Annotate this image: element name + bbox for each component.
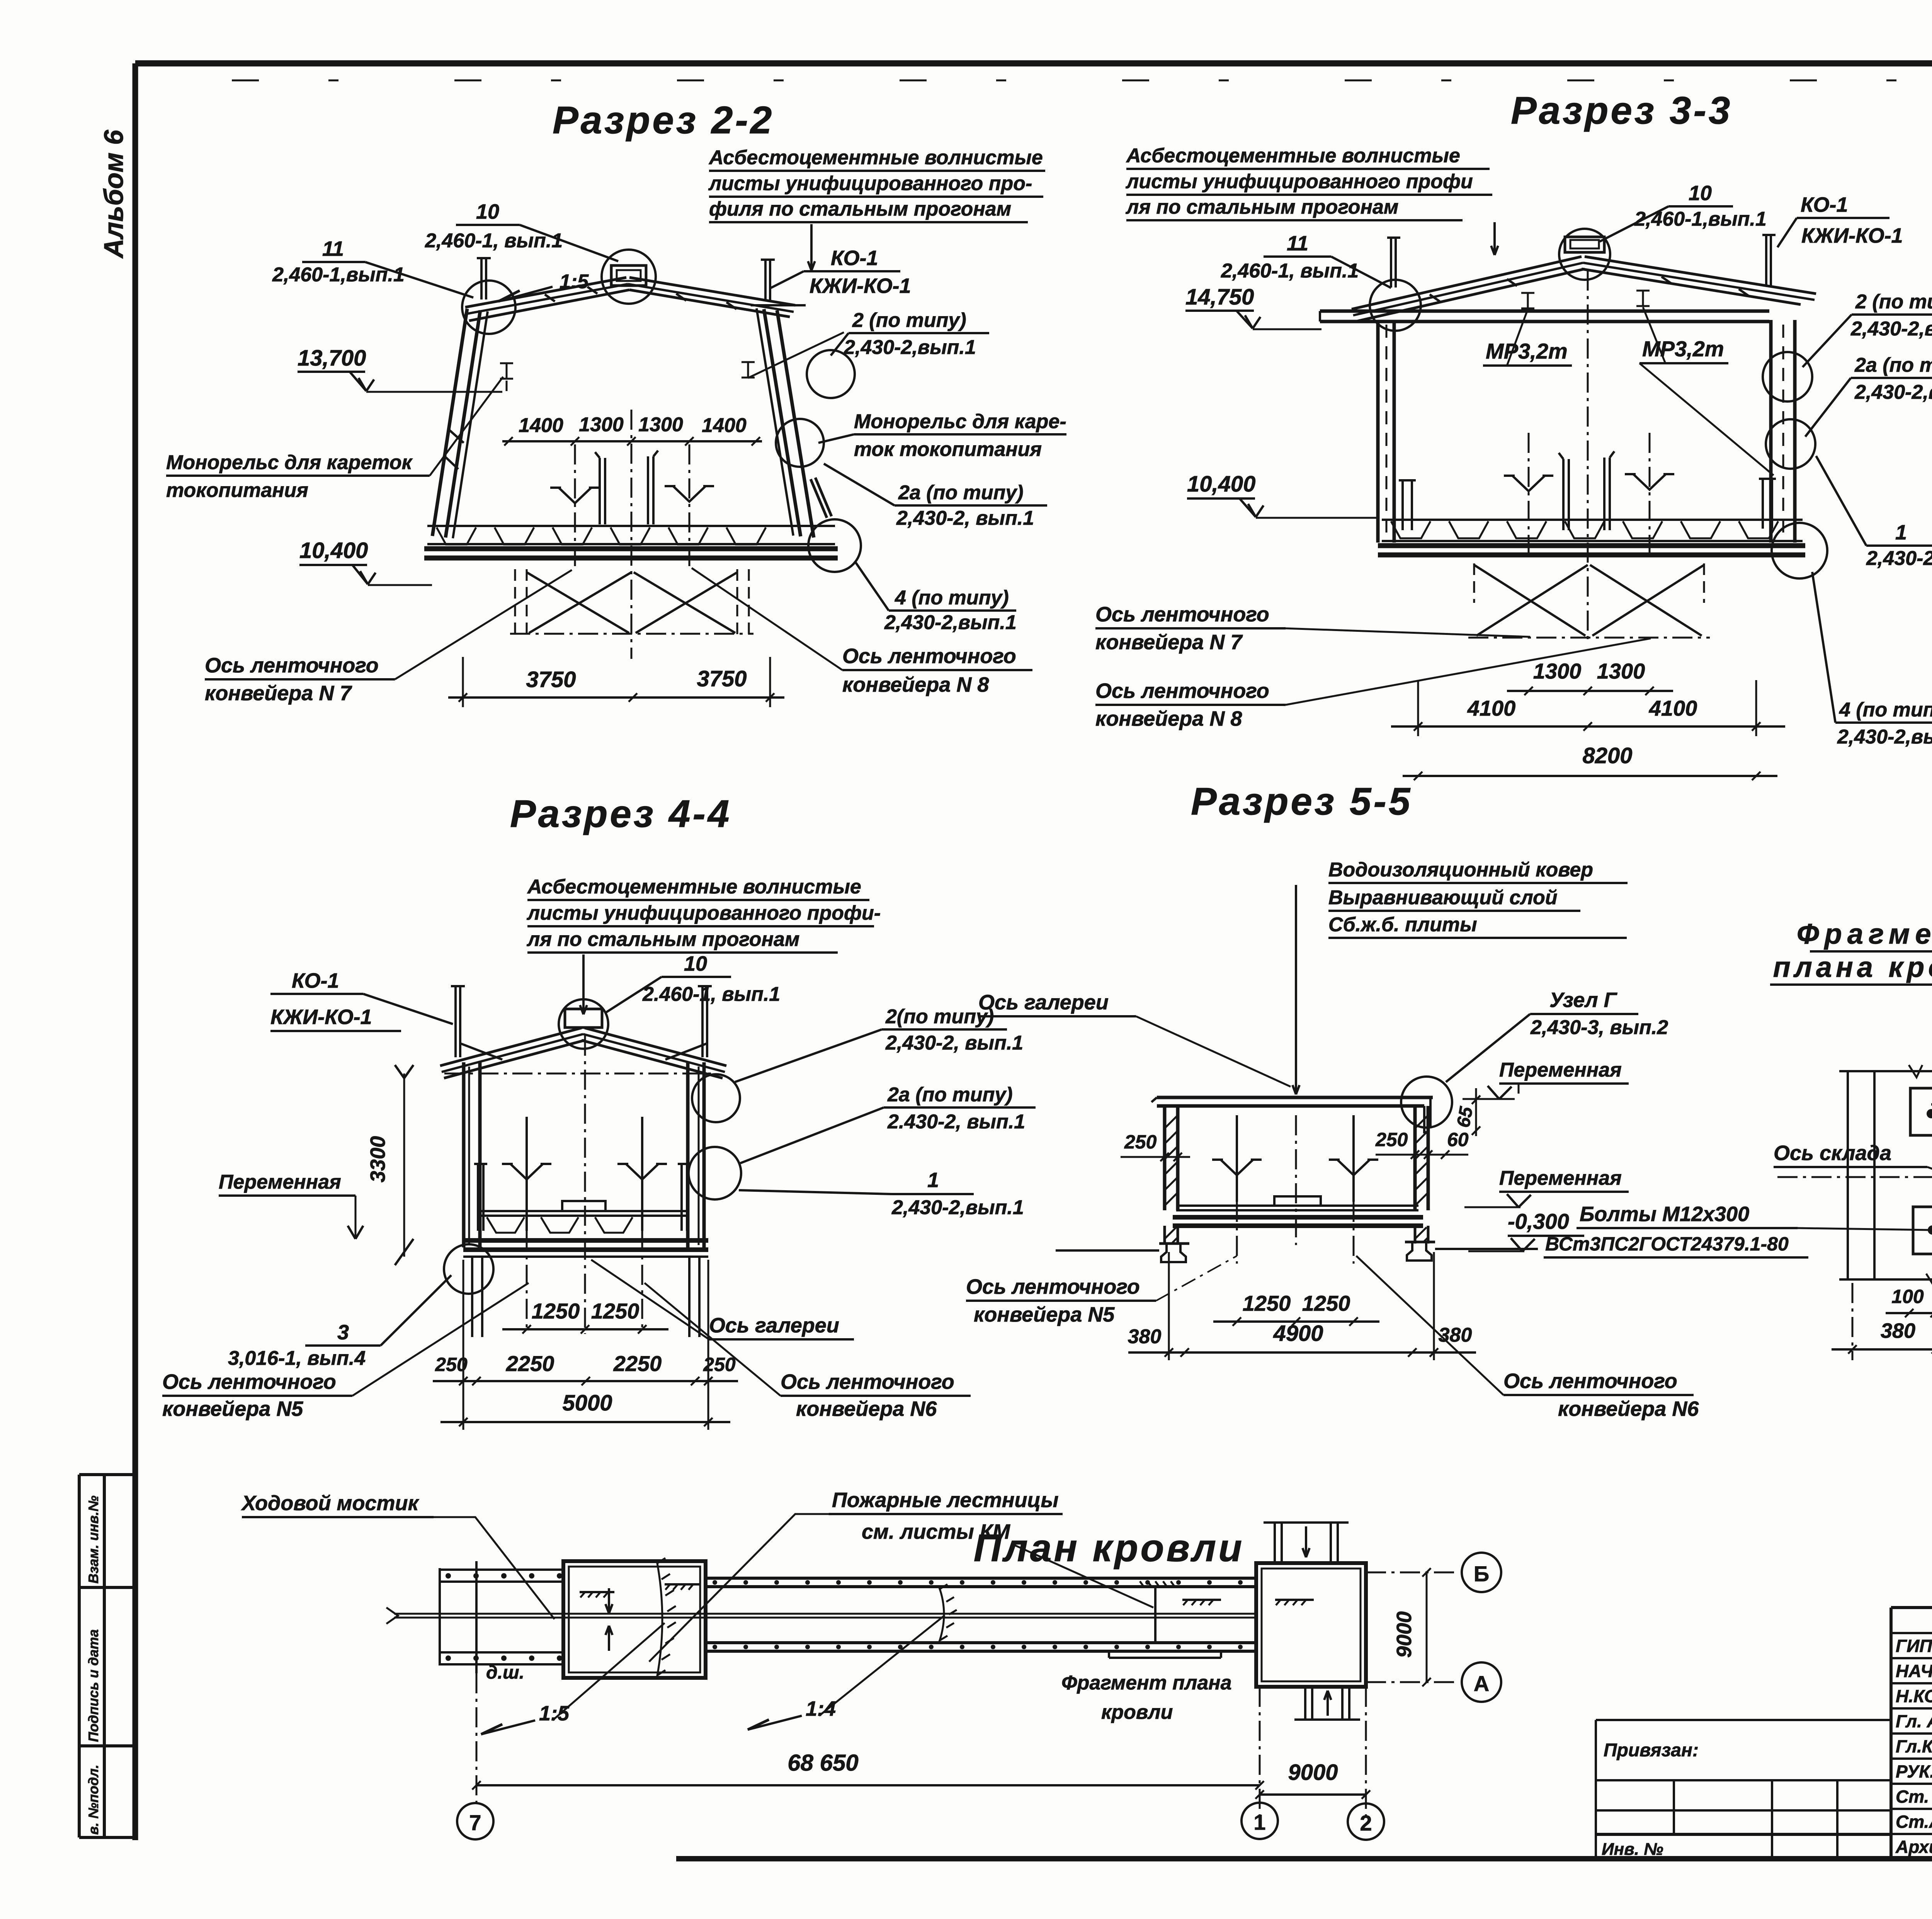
svg-text:филя по стальным прогонам: филя по стальным прогонам <box>709 198 1011 220</box>
svg-text:Сб.ж.б. плиты: Сб.ж.б. плиты <box>1328 914 1477 936</box>
svg-text:2,460-1,вып.1: 2,460-1,вып.1 <box>272 264 405 286</box>
axis circle 2 <box>1348 1803 1384 1840</box>
svg-text:5000: 5000 <box>562 1390 612 1415</box>
svg-text:1400: 1400 <box>702 414 747 437</box>
svg-text:3: 3 <box>337 1321 349 1344</box>
svg-text:10: 10 <box>684 952 707 975</box>
svg-text:КО-1: КО-1 <box>292 969 339 992</box>
svg-text:2.430-2, вып.1: 2.430-2, вып.1 <box>887 1111 1025 1133</box>
svg-text:1300: 1300 <box>579 413 624 436</box>
svg-text:3750: 3750 <box>697 666 747 691</box>
svg-text:10,400: 10,400 <box>1187 471 1255 497</box>
svg-text:Взам. инв.№: Взам. инв.№ <box>85 1495 101 1584</box>
section 3-3 right wall <box>1769 320 1773 543</box>
axis circle Б <box>1462 1553 1501 1592</box>
titleblock staff table <box>1889 1608 1893 1859</box>
svg-text:2,430-2,вып.1: 2,430-2,вып.1 <box>1837 726 1932 748</box>
svg-text:2,430-2,вып.1: 2,430-2,вып.1 <box>1854 381 1932 403</box>
plan centre line with walk bridge <box>394 1613 1256 1615</box>
svg-text:9000: 9000 <box>1393 1611 1416 1658</box>
svg-text:380: 380 <box>1128 1325 1162 1348</box>
section 5-5 right wall hatched <box>1413 1106 1417 1210</box>
axis circle А <box>1462 1662 1501 1702</box>
svg-text:-0,300: -0,300 <box>1508 1209 1569 1233</box>
svg-text:Ось склада: Ось склада <box>1774 1142 1891 1165</box>
svg-text:конвейера N6: конвейера N6 <box>796 1397 937 1421</box>
svg-text:Монорельс для кареток: Монорельс для кареток <box>166 451 413 474</box>
svg-text:МР3,2т: МР3,2т <box>1642 337 1724 361</box>
left roof post 2-2 <box>480 258 483 299</box>
plan expansion curve mid corridor <box>939 1587 944 1643</box>
svg-text:Подпись и дата: Подпись и дата <box>85 1629 101 1742</box>
eave circles 3-3 <box>1370 280 1421 331</box>
sheet border frame <box>135 60 1932 66</box>
svg-text:250: 250 <box>1124 1131 1157 1153</box>
monorail I-beams under beam 3-3 <box>1521 292 1534 294</box>
svg-text:2(по типу): 2(по типу) <box>885 1005 994 1028</box>
svg-text:Ходовой мостик: Ходовой мостик <box>241 1492 420 1515</box>
svg-text:1400: 1400 <box>519 414 563 437</box>
svg-text:ВСт3ПС2ГОСТ24379.1-80: ВСт3ПС2ГОСТ24379.1-80 <box>1545 1233 1789 1255</box>
tracks below right square <box>1304 1687 1306 1720</box>
svg-text:листы унифицированного профи: листы унифицированного профи <box>1125 170 1473 193</box>
left eave joint circle 2-2 <box>462 281 515 334</box>
axis to circle Б <box>1366 1572 1459 1574</box>
svg-text:1250: 1250 <box>1243 1291 1291 1315</box>
svg-text:3,016-1, вып.4: 3,016-1, вып.4 <box>228 1347 366 1369</box>
svg-text:10,400: 10,400 <box>299 538 368 563</box>
ladder bracket square top <box>1910 1088 1932 1135</box>
eave dash-dot line 4-4 <box>444 1073 715 1075</box>
svg-text:3750: 3750 <box>526 667 576 692</box>
svg-text:2,430-2, вып.1: 2,430-2, вып.1 <box>885 1032 1023 1054</box>
svg-text:2250: 2250 <box>613 1351 662 1376</box>
svg-text:в. №подл.: в. №подл. <box>85 1764 101 1835</box>
svg-text:Асбестоцементные волнистые: Асбестоцементные волнистые <box>1126 145 1460 167</box>
svg-text:КО-1: КО-1 <box>1801 193 1848 216</box>
svg-text:токопитания: токопитания <box>166 479 308 502</box>
svg-text:Асбестоцементные волнистые: Асбестоцементные волнистые <box>527 876 861 898</box>
svg-text:1250: 1250 <box>532 1299 580 1323</box>
svg-text:План кровли: План кровли <box>974 1526 1244 1570</box>
svg-text:Фрагмент: Фрагмент <box>1797 918 1932 950</box>
svg-text:2 (по типу): 2 (по типу) <box>1855 291 1932 313</box>
right drip edge 5-5 <box>1424 1106 1430 1132</box>
leader from note to roof apex 2-2 <box>810 224 813 270</box>
ground lines 5-5 <box>1056 1249 1159 1252</box>
roof slopes 3-3 <box>1352 257 1582 309</box>
svg-text:НАЧ.ОТС.: НАЧ.ОТС. <box>1896 1661 1932 1681</box>
floor pad 5-5 <box>1274 1196 1321 1206</box>
section 4-4 right wall <box>686 1062 690 1247</box>
svg-text:2 (по типу): 2 (по типу) <box>852 309 966 332</box>
svg-text:65: 65 <box>1453 1105 1477 1129</box>
svg-text:7: 7 <box>469 1810 481 1835</box>
svg-text:380: 380 <box>1881 1319 1915 1342</box>
section 5-5 roof slab <box>1157 1096 1433 1099</box>
svg-text:2,460-1, вып.1: 2,460-1, вып.1 <box>1221 260 1359 282</box>
corner callout circle 5-5 <box>1401 1077 1452 1128</box>
inner posts 4-4 <box>477 1164 479 1231</box>
svg-text:Ось ленточного: Ось ленточного <box>1095 679 1269 703</box>
plan right square <box>1256 1563 1366 1687</box>
right roof post 2-2 <box>764 260 767 301</box>
support columns below 4-4 <box>471 1257 473 1337</box>
svg-text:11: 11 <box>322 237 344 260</box>
angled braces at eaves 4-4 <box>460 1043 502 1060</box>
svg-text:конвейера N 8: конвейера N 8 <box>842 673 989 696</box>
svg-text:Ось ленточного: Ось ленточного <box>842 645 1016 668</box>
svg-text:Болты М12х300: Болты М12х300 <box>1580 1203 1749 1226</box>
callout circles right wall 4-4 <box>692 1074 740 1122</box>
callout circles right wall 3-3 <box>1763 352 1812 401</box>
hopper funnels and pipes 2-2 <box>559 488 591 503</box>
wall stubs below 5-5 <box>1163 1226 1166 1244</box>
monorail I-beam right 2-2 <box>742 361 755 363</box>
posts above roof 3-3 <box>1390 238 1392 288</box>
section 2-2 left wall <box>432 309 467 536</box>
svg-text:1300: 1300 <box>638 413 683 436</box>
roof posts 4-4 <box>454 986 457 1057</box>
wall bracket marks left 2-2 <box>449 430 464 443</box>
svg-text:Фрагмент плана: Фрагмент плана <box>1061 1672 1232 1694</box>
svg-text:Гл.КОНСТ.: Гл.КОНСТ. <box>1896 1736 1932 1756</box>
svg-text:4900: 4900 <box>1273 1321 1323 1346</box>
svg-text:1: 1 <box>927 1169 939 1192</box>
axis circle 1 <box>1242 1803 1278 1839</box>
svg-text:КО-1: КО-1 <box>831 247 878 270</box>
svg-text:4 (по типу): 4 (по типу) <box>895 587 1009 609</box>
svg-text:МР3,2т: МР3,2т <box>1486 339 1568 363</box>
svg-text:Ось ленточного: Ось ленточного <box>1503 1369 1677 1393</box>
curved expansion joint in square <box>657 1561 662 1678</box>
break marks fragment <box>1909 1065 1922 1077</box>
svg-text:Выравнивающий слой: Выравнивающий слой <box>1328 886 1558 909</box>
svg-text:Узел Г: Узел Г <box>1549 988 1618 1012</box>
section 5-5 left wall hatched <box>1163 1106 1167 1210</box>
monorail I-beam left 2-2 <box>500 362 513 364</box>
inner wall posts 3-3 <box>1401 480 1404 530</box>
axis to circle А <box>1366 1681 1459 1683</box>
callout circles right wall 2-2 <box>807 350 855 398</box>
svg-text:Разрез 4-4: Разрез 4-4 <box>510 792 731 835</box>
svg-text:10: 10 <box>476 200 499 223</box>
tracks above right square <box>1274 1523 1276 1563</box>
svg-text:ля по стальным прогонам: ля по стальным прогонам <box>1125 196 1398 218</box>
svg-text:4100: 4100 <box>1467 696 1516 720</box>
svg-text:конвейера N 8: конвейера N 8 <box>1095 707 1242 730</box>
svg-text:2,430-2,вып.1: 2,430-2,вып.1 <box>884 611 1017 634</box>
floor and deck 4-4 <box>478 1210 687 1212</box>
leader from note down to roof (3-3) <box>1493 222 1496 255</box>
svg-text:Ось ленточного: Ось ленточного <box>781 1370 954 1393</box>
floor small pad 4-4 <box>562 1201 605 1211</box>
arrows inside left square <box>608 1588 610 1613</box>
svg-text:конвейера N6: конвейера N6 <box>1558 1397 1699 1421</box>
svg-text:Разрез 5-5: Разрез 5-5 <box>1191 780 1412 823</box>
fragment wall lines <box>1847 1070 1849 1280</box>
svg-text:Ст.АРХ.: Ст.АРХ. <box>1896 1812 1932 1832</box>
svg-text:Альбом 6: Альбом 6 <box>99 129 129 259</box>
svg-text:РУК. ГР.: РУК. ГР. <box>1896 1761 1932 1781</box>
roof apex detail 3-3 <box>1565 237 1604 252</box>
svg-text:Н.КОНТР.: Н.КОНТР. <box>1896 1686 1932 1706</box>
svg-text:Гл. АРХ.: Гл. АРХ. <box>1896 1711 1932 1731</box>
leader arrow from notes to roof 5-5 <box>1295 885 1297 1070</box>
svg-text:А: А <box>1474 1671 1489 1696</box>
centre axis 2-2 <box>631 410 633 659</box>
svg-text:Переменная: Переменная <box>219 1171 341 1193</box>
svg-text:ГИП: ГИП <box>1896 1636 1932 1656</box>
svg-text:Ось ленточного: Ось ленточного <box>205 654 379 677</box>
scan artifact dashed streak top <box>232 80 1932 82</box>
svg-text:3300: 3300 <box>366 1136 389 1182</box>
svg-text:Привязан:: Привязан: <box>1604 1740 1699 1761</box>
svg-text:2,430-2,вып.1: 2,430-2,вып.1 <box>844 336 976 359</box>
svg-text:Ось галереи: Ось галереи <box>978 991 1109 1014</box>
floor 5-5 <box>1176 1204 1418 1207</box>
ladder bracket square bottom <box>1913 1207 1932 1254</box>
svg-text:60: 60 <box>1447 1129 1469 1150</box>
svg-text:конвейера N5: конвейера N5 <box>162 1397 303 1421</box>
svg-text:Б: Б <box>1474 1562 1489 1586</box>
svg-text:2,460-1,вып.1: 2,460-1,вып.1 <box>1634 208 1767 230</box>
section 2-2 floor slab ribbed deck <box>427 525 835 527</box>
purlin marks on roof 2-2 <box>545 294 555 301</box>
right eave outrigger 2-2 <box>751 304 806 306</box>
svg-text:9000: 9000 <box>1288 1760 1338 1785</box>
svg-text:1:4: 1:4 <box>806 1697 836 1720</box>
svg-text:Инв. №: Инв. № <box>1602 1840 1663 1859</box>
monorail stub right wall 2-2 <box>811 479 827 518</box>
centre axis 3-3 <box>1587 270 1589 640</box>
svg-text:2: 2 <box>1360 1811 1372 1835</box>
section 2-2 right wall <box>777 310 814 538</box>
svg-text:14,750: 14,750 <box>1185 284 1254 310</box>
svg-text:2а (по типу): 2а (по типу) <box>887 1084 1013 1106</box>
svg-text:Ось ленточного: Ось ленточного <box>1095 603 1269 626</box>
titleblock small table Привязан <box>1596 1719 1891 1721</box>
hatch marks ground symbol in square <box>580 1591 614 1593</box>
svg-text:см. листы КМ: см. листы КМ <box>862 1520 1010 1543</box>
svg-text:1:5: 1:5 <box>539 1702 570 1725</box>
svg-text:ля по стальным прогонам: ля по стальным прогонам <box>526 928 799 951</box>
svg-text:2,430-3, вып.2: 2,430-3, вып.2 <box>1530 1016 1668 1039</box>
bottom-left callout circle 4-4 <box>444 1244 493 1294</box>
plan left rails <box>439 1568 441 1666</box>
centre axis 4-4 <box>584 1036 586 1334</box>
section 4-4 left wall <box>462 1062 466 1247</box>
svg-text:2250: 2250 <box>506 1351 554 1376</box>
monorail beam at +14,750 (3-3) <box>1320 310 1769 313</box>
svg-text:8200: 8200 <box>1582 743 1632 768</box>
hoppers 4-4 <box>510 1164 543 1179</box>
svg-text:листы унифицированного профи-: листы унифицированного профи- <box>526 902 881 924</box>
section 4-4 roof <box>565 1009 602 1028</box>
svg-text:1300: 1300 <box>1533 659 1582 683</box>
svg-text:д.ш.: д.ш. <box>486 1662 524 1683</box>
leader from note down to roof (4-4) <box>582 954 585 1012</box>
svg-text:КЖИ-КО-1: КЖИ-КО-1 <box>1801 224 1903 247</box>
lower slab band 5-5 <box>1173 1215 1423 1220</box>
svg-text:Переменная: Переменная <box>1499 1167 1622 1189</box>
svg-text:Водоизоляционный ковер: Водоизоляционный ковер <box>1328 859 1593 881</box>
svg-text:1: 1 <box>1253 1810 1265 1834</box>
svg-text:13,700: 13,700 <box>298 345 366 371</box>
section 3-3 left wall <box>1376 320 1380 543</box>
svg-text:380: 380 <box>1439 1324 1472 1346</box>
svg-text:Разрез 3-3: Разрез 3-3 <box>1511 89 1732 132</box>
rail supports 5-5 <box>1159 1242 1189 1245</box>
svg-text:1250: 1250 <box>591 1299 639 1323</box>
left stamp column boxes <box>79 1473 136 1476</box>
section 2-2 roof right slope <box>629 277 795 305</box>
svg-text:2а (по типу): 2а (по типу) <box>898 481 1024 504</box>
svg-text:68 650: 68 650 <box>787 1750 859 1776</box>
svg-text:2,430-2,вып.1: 2,430-2,вып.1 <box>891 1196 1024 1219</box>
svg-text:КЖИ-КО-1: КЖИ-КО-1 <box>270 1005 372 1029</box>
svg-text:конвейера N 7: конвейера N 7 <box>1095 631 1243 654</box>
ladder mark top right corridor <box>1140 1586 1182 1588</box>
svg-text:1300: 1300 <box>1597 659 1645 683</box>
svg-text:250: 250 <box>1375 1129 1408 1150</box>
floor slab ribbed deck 3-3 <box>1382 519 1803 521</box>
svg-text:Ст. АРХ.: Ст. АРХ. <box>1896 1786 1932 1807</box>
section 2-2 truss below floor <box>514 569 516 635</box>
plan corridor upper/lower chords <box>706 1577 1256 1580</box>
svg-text:2,430-2,вып.1: 2,430-2,вып.1 <box>1866 547 1932 570</box>
svg-text:Разрез 2-2: Разрез 2-2 <box>553 99 774 142</box>
svg-text:Ось галереи: Ось галереи <box>709 1314 839 1337</box>
svg-text:КЖИ-КО-1: КЖИ-КО-1 <box>810 274 911 298</box>
hatch ground marks right square area <box>1182 1599 1221 1601</box>
svg-text:ток токопитания: ток токопитания <box>854 438 1042 461</box>
svg-text:плана кровли: плана кровли <box>1773 951 1932 983</box>
svg-text:Ось ленточного: Ось ленточного <box>162 1370 336 1393</box>
section 2-2 roof apex detail <box>611 265 646 286</box>
svg-text:1: 1 <box>1895 521 1907 544</box>
svg-text:10: 10 <box>1689 182 1712 205</box>
truss below floor 3-3 <box>1473 563 1475 603</box>
centre axis 5-5 <box>1295 1115 1297 1245</box>
svg-text:2а (по типу): 2а (по типу) <box>1854 354 1932 376</box>
axis circle 7 <box>457 1803 493 1839</box>
svg-text:4100: 4100 <box>1649 696 1697 720</box>
plan big square left (machine room) <box>563 1561 706 1678</box>
svg-text:Переменная: Переменная <box>1499 1059 1622 1081</box>
svg-text:4 (по типу): 4 (по типу) <box>1839 699 1932 721</box>
svg-text:Архит.: Архит. <box>1895 1837 1932 1857</box>
svg-text:Пожарные лестницы: Пожарные лестницы <box>832 1489 1059 1512</box>
hoppers and pipes 3-3 <box>1512 476 1545 491</box>
svg-text:кровли: кровли <box>1101 1701 1173 1723</box>
svg-text:11: 11 <box>1287 232 1308 255</box>
svg-text:Асбестоцементные волнистые: Асбестоцементные волнистые <box>708 146 1043 169</box>
svg-text:листы унифицированного про-: листы унифицированного про- <box>708 172 1032 195</box>
svg-text:конвейера N 7: конвейера N 7 <box>205 682 352 705</box>
svg-text:конвейера N5: конвейера N5 <box>974 1303 1115 1326</box>
fragment bracket under corridor <box>1109 1657 1221 1659</box>
svg-text:1250: 1250 <box>1302 1291 1350 1315</box>
section 2-2 roof left slope <box>465 277 626 307</box>
svg-text:2,430-2,вып.1: 2,430-2,вып.1 <box>1850 318 1932 340</box>
svg-text:Монорельс для каре-: Монорельс для каре- <box>854 410 1066 433</box>
svg-text:2,430-2, вып.1: 2,430-2, вып.1 <box>896 507 1034 529</box>
svg-text:Ось ленточного: Ось ленточного <box>966 1275 1140 1298</box>
hoppers 5-5 <box>1221 1160 1253 1175</box>
purlin marks on roof 3-3 <box>1430 294 1440 301</box>
svg-text:100: 100 <box>1891 1286 1924 1307</box>
